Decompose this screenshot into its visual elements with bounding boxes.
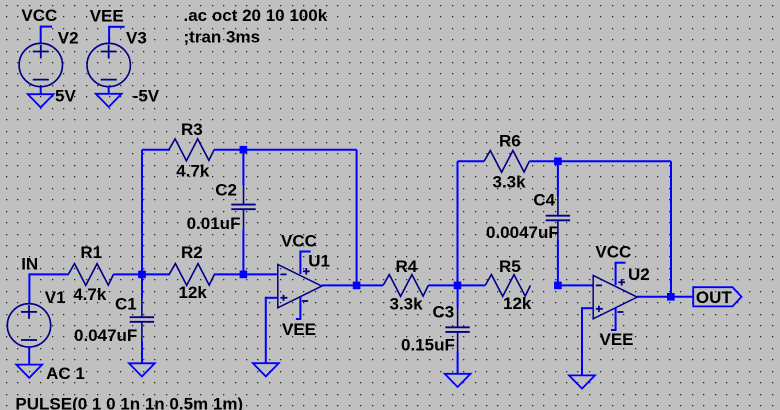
wire U1 V+ pin <box>299 252 301 275</box>
wire C2 top lead <box>242 150 244 185</box>
voltage source V3 <box>87 43 130 86</box>
junction U1 output node <box>353 282 361 290</box>
svg-text:3.3k: 3.3k <box>390 295 424 314</box>
junction U2 output node <box>667 293 675 301</box>
wire U2 non-inverting to ground <box>582 307 593 309</box>
resistor R3 <box>169 139 214 161</box>
resistor R6 <box>484 151 529 173</box>
wire feedback 2 down to U2 output <box>670 161 672 296</box>
svg-text:12k: 12k <box>179 283 208 302</box>
svg-text:U2: U2 <box>628 265 650 284</box>
capacitor C2 <box>243 184 245 204</box>
junction C4 bottom / R5 right <box>554 282 562 290</box>
wire C4 top lead <box>557 161 559 196</box>
capacitor C4 <box>557 196 559 216</box>
svg-text:IN: IN <box>21 255 38 274</box>
svg-text:OUT: OUT <box>696 288 733 307</box>
wire N1 down to C1 <box>141 274 143 297</box>
svg-text:-5V: -5V <box>133 87 160 106</box>
ground under C1 <box>129 363 155 376</box>
ground under C3 <box>445 374 471 387</box>
svg-text:12k: 12k <box>503 294 532 313</box>
wire N3 to R5 <box>458 284 486 286</box>
capacitor C3 <box>457 307 459 327</box>
wire C3 to ground <box>457 352 459 375</box>
wire R2 to U1 inverting input <box>214 273 278 275</box>
wire VEE stub to V3 <box>109 26 125 28</box>
resistor R4 <box>383 275 428 297</box>
wire R3 to feedback right <box>214 149 357 151</box>
wire R1 to node N1 <box>113 273 170 275</box>
svg-text:C4: C4 <box>533 191 555 210</box>
svg-text:VCC: VCC <box>21 6 57 25</box>
svg-text:VEE: VEE <box>600 330 634 349</box>
svg-text:VCC: VCC <box>595 243 631 262</box>
wire R4 to node N3 <box>428 284 457 286</box>
svg-text:R6: R6 <box>499 132 521 151</box>
svg-text:5V: 5V <box>55 87 76 106</box>
wire C2 bottom lead <box>242 230 244 275</box>
junction node N2 top <box>240 146 248 154</box>
wire U2 output <box>637 296 671 298</box>
wire U1 non-inverting to ground <box>266 297 278 299</box>
resistor R5 <box>485 275 530 297</box>
svg-text:0.0047uF: 0.0047uF <box>486 223 559 242</box>
ground under V3 <box>96 94 122 107</box>
svg-text:4.7k: 4.7k <box>73 285 107 304</box>
wire R5 to U2 inverting input <box>558 284 593 286</box>
svg-text:.ac oct 20 10 100k: .ac oct 20 10 100k <box>184 6 328 25</box>
svg-text:4.7k: 4.7k <box>176 162 210 181</box>
wire N1 up (feedback left) <box>141 150 143 275</box>
svg-text:3.3k: 3.3k <box>493 173 527 192</box>
svg-text:R4: R4 <box>396 257 418 276</box>
wire U2 V+ pin <box>615 263 617 285</box>
svg-text:0.01uF: 0.01uF <box>187 214 241 233</box>
wire V2 to ground <box>40 87 42 95</box>
wire N3 down to C3 <box>457 285 459 307</box>
voltage source V1 <box>7 304 50 347</box>
wire V3 to ground <box>108 87 110 94</box>
wire feedback down to U1 output <box>356 150 358 286</box>
svg-text:R1: R1 <box>80 243 102 262</box>
capacitor C1 <box>141 297 143 317</box>
wire V1 to ground <box>28 347 30 365</box>
wire C1 to ground <box>141 342 143 364</box>
wire U1 V- pin <box>299 297 301 319</box>
ground under U1 <box>253 363 279 376</box>
junction node N1 <box>138 271 146 279</box>
svg-text:C1: C1 <box>115 294 137 313</box>
svg-text:C2: C2 <box>215 181 237 200</box>
wire IN down to V1 <box>28 273 30 303</box>
wire to OUT port <box>671 296 693 298</box>
svg-text:;tran 3ms: ;tran 3ms <box>184 27 261 46</box>
wire VCC stub to V2 <box>41 26 52 28</box>
voltage source V2 <box>19 43 62 86</box>
wire R6 to feedback 2 right <box>529 160 671 162</box>
wire to R3 <box>142 149 170 151</box>
op-amp U1 <box>278 264 322 307</box>
wire IN to R1 <box>29 273 68 275</box>
ground under U2 <box>569 375 595 388</box>
svg-text:R3: R3 <box>181 120 203 139</box>
svg-text:VEE: VEE <box>90 7 124 26</box>
wire U1 out to R4 <box>357 284 383 286</box>
junction C4 top <box>554 158 562 166</box>
resistor R1 <box>68 264 113 286</box>
svg-text:0.047uF: 0.047uF <box>74 326 137 345</box>
junction C2 bottom on row A <box>240 271 248 279</box>
resistor R2 <box>169 264 214 286</box>
svg-text:V1: V1 <box>45 288 66 307</box>
svg-text:AC 1: AC 1 <box>46 364 85 383</box>
svg-text:0.15uF: 0.15uF <box>401 336 455 355</box>
wire N3 up (feedback 2 left) <box>457 161 459 285</box>
port flag OUT <box>693 287 741 306</box>
svg-text:R5: R5 <box>499 257 521 276</box>
svg-text:VEE: VEE <box>282 320 316 339</box>
svg-text:V2: V2 <box>58 29 79 48</box>
wire U2 V- pin <box>615 308 617 330</box>
wire U1 output <box>322 284 357 286</box>
svg-text:U1: U1 <box>308 252 330 271</box>
ground under V1 <box>16 365 42 378</box>
junction node N3 <box>454 282 462 290</box>
svg-text:PULSE(0 1 0 1n 1n 0.5m 1m): PULSE(0 1 0 1n 1n 0.5m 1m) <box>15 395 243 410</box>
svg-text:VCC: VCC <box>281 232 317 251</box>
ground under V2 <box>28 94 54 107</box>
svg-text:V3: V3 <box>126 29 147 48</box>
wire to R6 <box>458 160 485 162</box>
svg-text:C3: C3 <box>433 303 455 322</box>
op-amp U2 <box>593 275 637 318</box>
wire C4 bottom lead <box>557 240 559 285</box>
svg-text:R2: R2 <box>181 243 203 262</box>
